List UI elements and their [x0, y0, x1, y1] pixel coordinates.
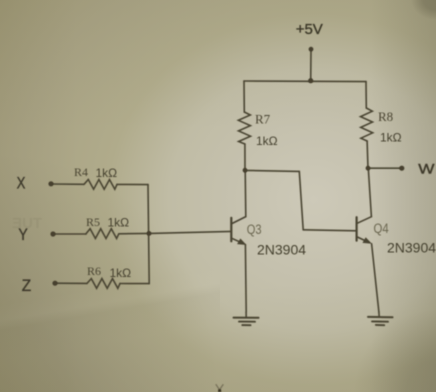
svg-text:1kΩ: 1kΩ — [96, 166, 118, 180]
faint paper crease lower-left — [0, 240, 220, 392]
wire: cross-coupling vertical — [299, 171, 303, 229]
wire: output node to W terminal — [368, 167, 401, 169]
svg-text:R4: R4 — [74, 165, 88, 179]
node: X input terminal dot — [48, 181, 53, 186]
junction: Q4 collector node — [366, 166, 371, 171]
wire: Y input lead — [53, 233, 86, 235]
wire: R6 to input bus — [120, 283, 149, 285]
wire: R5 to Q3 base — [119, 231, 232, 233]
svg-text:2N3904: 2N3904 — [257, 242, 306, 258]
node: Y input terminal dot — [50, 231, 55, 236]
wire: cross-coupling to Q4 base — [303, 230, 356, 231]
wire: input bus vertical — [148, 185, 149, 284]
svg-text:+5V: +5V — [296, 21, 323, 38]
resistor R7 — [238, 112, 250, 144]
node: Z input terminal dot — [52, 281, 57, 286]
faint ink bleed-through from reverse side — [12, 215, 42, 232]
resistor R5 — [86, 229, 119, 239]
svg-text:Q4: Q4 — [374, 221, 390, 236]
node: W output terminal dot — [399, 166, 404, 171]
svg-text:1kΩ: 1kΩ — [110, 266, 132, 280]
resistor R4 — [84, 180, 117, 190]
svg-text:Q3: Q3 — [247, 222, 262, 237]
ground (Q3 emitter) — [234, 312, 259, 325]
transistor Q3 — [231, 170, 246, 312]
wire: R7 top lead — [243, 81, 245, 112]
wire: Z input lead — [55, 282, 87, 284]
stray mark at bottom edge (top of cropped letter) — [216, 384, 224, 392]
wire: R7 bottom lead to Q3 collector node — [244, 144, 246, 170]
svg-text:Y: Y — [18, 226, 27, 244]
svg-text:Z: Z — [22, 277, 31, 295]
wire: R4 to input bus — [117, 183, 148, 185]
wire: X input lead — [51, 183, 84, 185]
wire: top supply bus — [244, 80, 366, 83]
svg-text:R8: R8 — [378, 109, 393, 124]
svg-text:W: W — [418, 161, 434, 176]
resistor R6 — [87, 279, 120, 289]
node: +5V terminal dot — [309, 47, 314, 52]
ground (Q4 emitter) — [368, 312, 393, 325]
svg-text:R5: R5 — [86, 215, 100, 229]
svg-text:1kΩ: 1kΩ — [256, 134, 278, 148]
wire: R8 bottom lead to Q4 collector node — [366, 141, 369, 168]
svg-text:X: X — [17, 174, 26, 192]
+5V supply stub wire — [310, 49, 312, 80]
resistor R8 — [361, 108, 373, 141]
svg-text:1kΩ: 1kΩ — [108, 216, 130, 230]
svg-text:R6: R6 — [87, 264, 101, 278]
svg-text:1kΩ: 1kΩ — [380, 131, 402, 145]
wire: R8 top lead — [365, 82, 367, 108]
junction: Q3 collector node — [243, 168, 248, 173]
junction: input bus / Y row — [147, 231, 152, 236]
transistor Q4 — [357, 168, 379, 312]
svg-text:R7: R7 — [255, 112, 271, 127]
wire: Q3 collector node to cross-coupling — [245, 170, 299, 171]
svg-text:2N3904: 2N3904 — [387, 240, 436, 256]
junction: supply bus — [308, 78, 313, 83]
